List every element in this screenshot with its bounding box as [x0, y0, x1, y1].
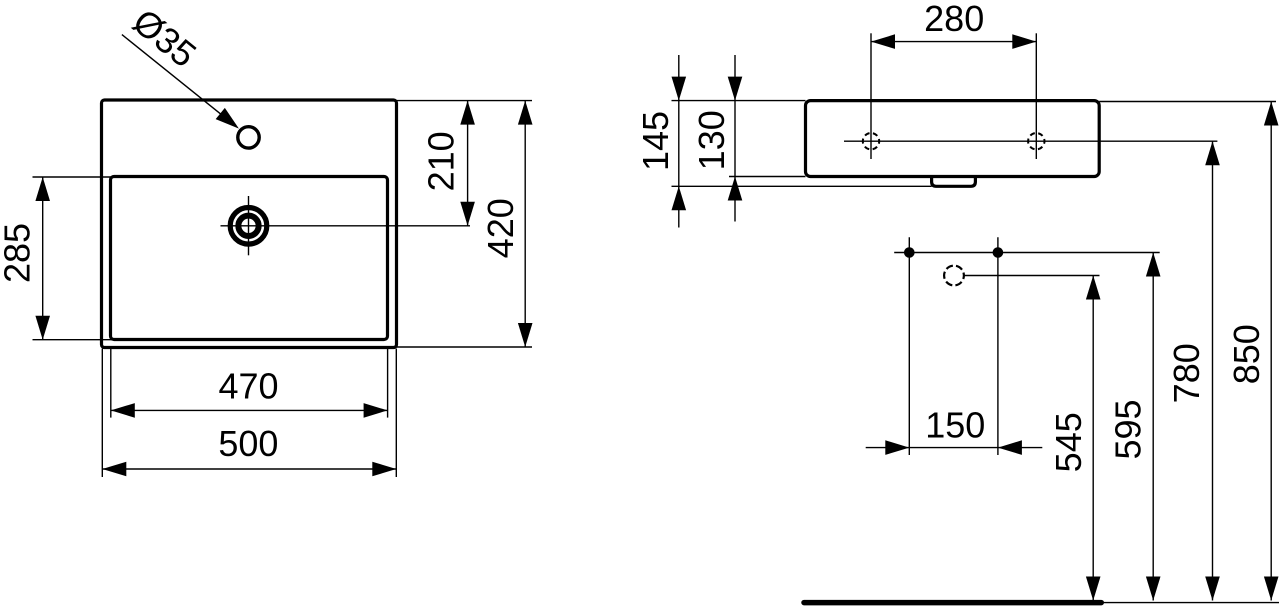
- extension line 500 right: [395, 349, 397, 478]
- arrow 595 up: [1146, 253, 1161, 277]
- svg-text:545: 545: [1048, 412, 1089, 472]
- arrow 500 right: [372, 462, 396, 477]
- dimension line 780: [1212, 141, 1214, 600]
- svg-text:780: 780: [1166, 343, 1207, 403]
- arrow 420 up: [518, 101, 533, 125]
- dimension line 280: [871, 41, 1036, 43]
- siphon reference line: [964, 275, 1099, 277]
- dimension line 145: [678, 55, 680, 228]
- arrow 470 right: [364, 403, 388, 418]
- dimension line 210: [467, 101, 469, 226]
- drain crosshair vertical: [248, 196, 250, 255]
- arrow 150 right-pointing (outside left): [885, 440, 909, 455]
- extension line top right of body (850): [1099, 101, 1276, 103]
- extension line 470 left: [110, 349, 112, 418]
- basin body side profile: [806, 101, 1100, 177]
- extension line bottom right of basin: [397, 346, 533, 348]
- siphon outlet dashed circle: [944, 266, 964, 286]
- extension line through left dot: [908, 237, 910, 455]
- svg-text:420: 420: [480, 198, 521, 258]
- fixing dots reference line: [894, 252, 1159, 254]
- floor line thin: [1104, 602, 1279, 604]
- arrow 130 down (above): [728, 77, 743, 101]
- arrow 130 up (below): [728, 177, 743, 201]
- dimension line 150: [866, 447, 1043, 449]
- arrow 280 left: [871, 34, 895, 49]
- arrow 780 up: [1205, 141, 1220, 165]
- svg-text:470: 470: [218, 365, 278, 406]
- svg-text:150: 150: [925, 405, 985, 446]
- svg-text:210: 210: [421, 131, 462, 191]
- extension line through right dot: [997, 237, 999, 455]
- arrow 780 down: [1205, 577, 1220, 601]
- extension line 280 left through hole: [870, 33, 872, 159]
- arrow 500 left: [102, 462, 126, 477]
- leader line for hole diameter: [122, 35, 224, 117]
- extension line top left of body: [672, 100, 806, 102]
- svg-text:130: 130: [691, 110, 732, 170]
- arrow 595 down: [1146, 577, 1161, 601]
- svg-text:850: 850: [1226, 324, 1267, 384]
- wall fixing dot left: [904, 247, 915, 258]
- svg-text:285: 285: [0, 223, 37, 283]
- dimension line 470: [111, 409, 388, 411]
- extension line 470 right: [387, 349, 389, 418]
- extension line bottom of body (130): [729, 176, 806, 178]
- extension line 500 left: [101, 349, 103, 478]
- arrow 210 down: [460, 202, 475, 226]
- arrow 850 down: [1264, 577, 1279, 601]
- extension line 285 bottom: [33, 339, 113, 341]
- drain centre reference line to 210 dimension: [221, 225, 471, 227]
- arrow 420 down: [518, 323, 533, 347]
- leader arrowhead: [216, 108, 239, 129]
- fixing hole left (dashed circle): [863, 133, 879, 149]
- wall fixing dot right: [993, 247, 1004, 258]
- dimension line 500: [102, 468, 396, 470]
- svg-text:500: 500: [218, 423, 278, 464]
- dimension line 130: [734, 55, 736, 222]
- extension line top right of basin: [397, 100, 533, 102]
- svg-text:595: 595: [1108, 399, 1149, 459]
- dimension line 850: [1270, 102, 1272, 601]
- svg-text:280: 280: [924, 0, 984, 39]
- extension line 285 top: [33, 176, 113, 178]
- arrow 280 right: [1012, 34, 1036, 49]
- fixing hole right (dashed circle): [1028, 133, 1044, 149]
- drain outlet tab: [932, 176, 976, 186]
- drain outer circle: [230, 208, 267, 245]
- arrow 145 down (above): [672, 77, 687, 101]
- drain inner circle: [238, 216, 258, 236]
- arrow 285 up: [35, 177, 50, 201]
- dimension line 420: [524, 101, 526, 347]
- floor line thick: [804, 600, 1101, 606]
- arrow 285 down: [35, 316, 50, 340]
- arrow 150 left-pointing (outside right): [998, 440, 1022, 455]
- arrow 545 down: [1086, 577, 1101, 601]
- faucet hole circle: [238, 127, 259, 148]
- dimension line 595: [1152, 253, 1154, 601]
- basin inner bowl rectangle: [111, 177, 388, 340]
- extension line bottom of outlet (145): [672, 185, 932, 187]
- arrow 470 left: [111, 403, 135, 418]
- arrow 850 up: [1264, 102, 1279, 126]
- arrow 145 up (below): [672, 186, 687, 210]
- dimension line 545: [1092, 276, 1094, 601]
- fixing holes centre line: [844, 140, 1217, 142]
- arrow 210 up: [460, 101, 475, 125]
- basin outer rim rectangle: [102, 100, 397, 348]
- dimension line 285: [42, 177, 44, 340]
- arrow 545 up: [1086, 276, 1101, 300]
- svg-text:145: 145: [635, 111, 676, 171]
- extension line 280 right through hole: [1035, 33, 1037, 159]
